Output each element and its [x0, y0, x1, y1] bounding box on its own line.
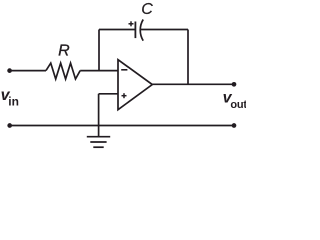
- wire: non-inverting input horizontal: [99, 93, 118, 95]
- bottom-left terminal dot: [7, 123, 12, 128]
- wire: op-amp output to output terminal: [152, 83, 234, 85]
- svg-text:C: C: [141, 1, 153, 18]
- wire: feedback vertical rise from inverting node: [98, 30, 100, 71]
- wire: top feedback run to capacitor positive plate: [99, 29, 135, 31]
- output terminal dot: [232, 82, 237, 87]
- wire: capacitor curved plate to feedback corner: [141, 29, 188, 31]
- input terminal dot: [7, 68, 12, 73]
- capacitor C curved (negative) plate: [140, 20, 143, 41]
- wire: feedback vertical drop to output node: [187, 30, 189, 85]
- ground symbol: [87, 136, 110, 138]
- resistor R: [46, 63, 80, 79]
- op-amp non-inverting input plus sign: [122, 95, 127, 97]
- wire: bottom common rail: [10, 125, 234, 127]
- wire: non-inverting input vertical drop to ground: [98, 94, 100, 137]
- svg-text:out: out: [230, 99, 246, 111]
- wire: input terminal to resistor: [10, 70, 46, 72]
- op-amp U1 triangle: [118, 60, 152, 110]
- svg-text:in: in: [8, 94, 19, 108]
- bottom-right terminal dot: [232, 123, 237, 128]
- capacitor polarity plus sign: [129, 23, 134, 25]
- svg-text:R: R: [58, 43, 70, 60]
- capacitor C straight (positive) plate: [134, 22, 136, 39]
- wire: resistor to op-amp inverting input: [80, 70, 118, 72]
- op-amp inverting input minus sign: [121, 69, 127, 71]
